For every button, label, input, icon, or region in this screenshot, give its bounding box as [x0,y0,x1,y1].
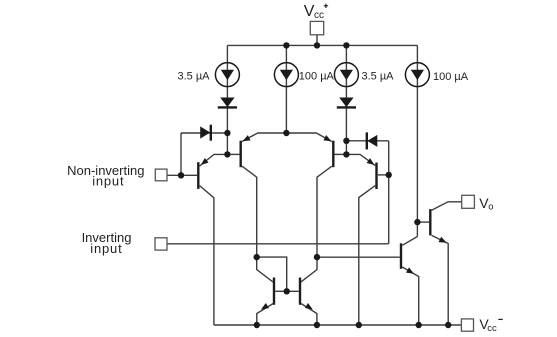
transistor Q6 base bar [400,243,402,268]
junction rail Q6 [416,322,422,328]
node center emitters [283,130,289,136]
wire Q3 base [335,153,347,155]
junction Q3 collector [314,254,320,260]
svg-text:input: input [92,173,124,188]
wire Q4 collector [359,186,376,325]
wire current source I4 branch [416,45,418,236]
transistor Q3 base bar [332,141,334,168]
junction rail Q8 [314,322,320,328]
current source I4 arrow [411,70,424,80]
wire top supply rail [227,44,417,46]
node B left [224,151,230,157]
current source I1 arrow [221,70,234,80]
wire current source I1 branch [226,45,228,154]
wire D4 to Q4 base vertical [388,141,390,244]
transistor Q7 base bar [273,278,275,305]
transistor Q5 base bar [429,209,431,235]
wire Q4 emitter [346,154,375,165]
diode D3 triangle [200,126,210,138]
wire Vcc+ stub [316,35,318,46]
wire Q1 collector [200,186,214,325]
terminal Vcc+ box [310,21,323,34]
junction Vcc rail [314,42,320,48]
current source I2 circle [274,63,298,87]
wire Q1 emitter [200,154,228,166]
current source I4 circle [405,63,429,87]
junction I2 rail [283,42,289,48]
diode D4 cathode bar [366,132,368,149]
svg-text:100 µA: 100 µA [433,71,469,83]
svg-text:3.5 µA: 3.5 µA [362,70,395,82]
wire current source I3 branch [345,45,347,154]
wire Q2 base [227,153,239,155]
transistor Q8 emitter arrow [305,303,313,310]
junction rail Q4 [356,322,362,328]
wire current source I2 branch [285,45,287,133]
junction rail Q5 [445,322,451,328]
transistor Q1 emitter arrow [201,158,209,165]
wire Q8 emitter [301,304,317,325]
svg-text:cc: cc [314,10,324,21]
wire Q3 emitter [286,133,331,142]
transistor Q2 base bar [239,141,241,168]
wire Q3 collector [317,166,332,257]
diode D2 triangle [339,98,353,108]
transistor Q1 base bar [197,162,199,189]
junction non-inverting input [178,172,184,178]
wire Q7 emitter [257,304,273,325]
diode D3 cathode bar [210,125,212,141]
transistor Q3 emitter arrow [323,135,331,141]
svg-text:100 µA: 100 µA [299,70,335,82]
wire Q8 collector [301,257,317,282]
junction Q5 base [414,219,420,225]
junction rail Q7 [254,322,260,328]
terminal Vo box [462,195,475,208]
wire diode D4 horizontal [346,140,388,142]
junction mirror bases [284,288,290,294]
svg-text:cc: cc [487,323,497,334]
transistor Q8 base bar [299,278,301,305]
current source I3 circle [334,63,358,87]
transistor Q6 emitter arrow [406,267,414,273]
wire Q7 Q8 base tie [275,290,299,292]
wire non-inverting input to Q1 base [167,174,197,176]
diode D4 triangle [367,135,377,147]
node A left [224,130,230,136]
transistor Q4 base bar [375,163,377,190]
diode D1 cathode bar [218,106,237,108]
svg-text:o: o [488,201,493,212]
junction I3 rail [343,42,349,48]
junction Q4 base [386,172,392,178]
label Non-inverting input [67,163,144,189]
terminal non-inverting input box [155,169,167,181]
wire Q5 base [417,221,429,223]
terminal Vcc- box [461,319,473,331]
wire Q2 emitter [242,133,286,142]
wire bottom supply rail [214,324,462,326]
terminal inverting input box [155,238,167,250]
wire diode D3 to Q1 base [180,133,182,175]
svg-text:3.5 µA: 3.5 µA [177,70,210,82]
wire Q2 collector [242,166,257,257]
node B right [343,151,349,157]
transistor Q5 emitter arrow [439,237,447,243]
wire Q6 emitter [402,267,418,325]
node A right [343,138,349,144]
diode D1 triangle [220,98,234,108]
wire Q6 collector [402,237,417,246]
label Inverting input [82,230,132,256]
transistor Q2 emitter arrow [243,135,251,141]
wire Q8 collector to Q6 base [317,256,400,258]
transistor Q7 emitter arrow [261,303,269,310]
label Vo [479,195,493,212]
wire diode D3 horizontal [181,132,227,134]
wire Q4 base [378,174,389,176]
current source I3 arrow [340,70,353,80]
junction Q2 collector [254,254,260,260]
current source I1 circle [215,63,239,87]
transistor Q4 emitter arrow [367,158,375,165]
wire Q5 collector to Vo [432,202,462,210]
label Vcc+ [304,3,328,21]
wire Q7 collector [257,257,273,282]
wire inverting input [167,243,389,245]
current source I2 arrow [280,70,293,80]
label Vcc- [479,316,502,334]
wire Q5 emitter [432,235,449,325]
diode D2 cathode bar [337,106,356,108]
wire mirror tie left [257,257,287,291]
svg-text:input: input [90,241,122,256]
